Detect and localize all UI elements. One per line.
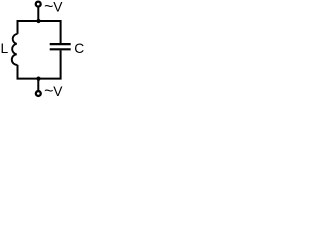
inductor L coil — [12, 34, 18, 65]
capacitor C top plate — [50, 43, 71, 45]
wire bottom terminal stub — [37, 79, 39, 91]
terminal open circle bottom — [36, 91, 41, 96]
node junction dot top — [36, 19, 40, 23]
svg-text:V: V — [53, 84, 63, 99]
svg-text:V: V — [53, 0, 63, 14]
capacitor C bottom plate — [50, 48, 71, 50]
wire top rail — [18, 21, 61, 43]
svg-text:L: L — [1, 41, 9, 56]
svg-text:~: ~ — [44, 0, 53, 15]
wire bottom rail — [18, 50, 61, 78]
node junction dot bottom — [36, 77, 40, 81]
svg-text:C: C — [74, 41, 84, 56]
terminal open circle top — [36, 2, 41, 7]
wire top terminal stub — [37, 7, 39, 21]
svg-text:~: ~ — [44, 83, 53, 100]
